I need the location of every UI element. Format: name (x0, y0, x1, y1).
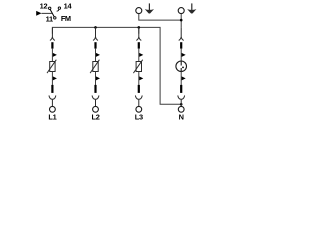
wire (180, 49, 182, 66)
svg-text:14: 14 (64, 1, 73, 10)
wire (180, 72, 182, 85)
svg-text:12: 12 (40, 2, 48, 11)
wire bus horizontal (52, 27, 181, 104)
spark gap (gas discharge tube) (176, 61, 187, 72)
junction N node (180, 103, 183, 106)
terminal circle N (178, 106, 184, 112)
wire PE right drop (180, 14, 182, 28)
contact point 12 (49, 7, 51, 9)
wire PE left drop (139, 14, 181, 20)
spark gap gas dot (182, 67, 184, 69)
junction bus L2 (94, 26, 97, 29)
surge path L3 (133, 28, 143, 113)
plug contact fork N (up) and stem (178, 95, 185, 106)
surge path L2 (90, 28, 100, 113)
spark gap top electrode (180, 61, 182, 66)
disconnect pin bar N bottom (180, 85, 182, 93)
PE discharge arrow right (187, 3, 196, 13)
disconnect pin bar N top (180, 42, 182, 48)
PE terminal circle right (178, 8, 184, 14)
PE terminal circle left (136, 8, 142, 14)
svg-text:FM: FM (61, 14, 71, 23)
actuator line (42, 12, 53, 14)
svg-text:11: 11 (46, 15, 53, 24)
svg-text:L2: L2 (91, 113, 99, 122)
junction PE bus (180, 19, 183, 22)
junction bus L3 (138, 26, 141, 29)
switch lever 11-12 (50, 10, 54, 17)
contact point 14 (58, 7, 60, 9)
contact point 11 (54, 17, 56, 19)
svg-text:L3: L3 (135, 113, 143, 122)
thermal disconnect arrow N bottom (182, 76, 186, 80)
wire bus L2 drop (95, 27, 97, 33)
plug contact fork N (down) (179, 28, 184, 41)
svg-text:N: N (179, 113, 184, 122)
wire bus L3 drop (138, 27, 140, 33)
svg-text:L1: L1 (48, 113, 56, 122)
spark gap bottom electrode (180, 68, 182, 72)
actuator arrow (36, 11, 41, 16)
PE discharge arrow left (145, 3, 154, 13)
contact seat hook under 14 (57, 10, 59, 12)
surge path L1 (47, 28, 57, 113)
thermal disconnect arrow N (182, 53, 186, 57)
